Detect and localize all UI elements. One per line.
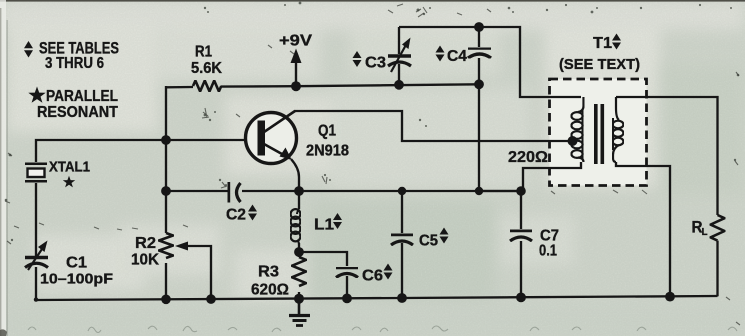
svg-text:Q1: Q1 (318, 123, 336, 140)
transistor Q1 (246, 111, 297, 164)
svg-text:C2: C2 (226, 207, 246, 224)
note symbol (double arrow) top-left (24, 41, 33, 58)
wire: mid wire C2 run (166, 190, 228, 192)
svg-text:2N918: 2N918 (306, 143, 349, 160)
wire: C4 branch vertical (478, 27, 480, 47)
wire: C7 branch (520, 191, 522, 229)
svg-text:620Ω: 620Ω (251, 282, 289, 299)
svg-text:C5: C5 (419, 233, 438, 250)
transformer T1 primary winding (571, 97, 583, 162)
scan border left edge (0, 0, 6, 336)
wire: C3 branch (398, 27, 400, 54)
wire: bottom ground rail (36, 296, 718, 300)
wire: emitter down (291, 159, 299, 191)
resistor R1 (193, 81, 221, 92)
star symbol xtal (63, 176, 75, 188)
transformer T1 core (594, 104, 604, 164)
svg-text:L1: L1 (314, 217, 334, 234)
svg-text:C3: C3 (365, 55, 386, 72)
star symbol parallel note (28, 87, 45, 103)
C4 double arrow (436, 46, 445, 62)
pencil squiggles bottom (28, 326, 737, 333)
wire: C5 branch (401, 191, 403, 233)
svg-text:220Ω: 220Ω (508, 149, 548, 166)
wire: T1 secondary bottom lead (616, 162, 670, 297)
svg-text:C6: C6 (362, 268, 383, 285)
capacitor C6 (336, 268, 358, 278)
C2 double arrow (248, 205, 257, 221)
inductor L1 (291, 209, 301, 244)
svg-text:10K: 10K (131, 252, 159, 269)
C5 double arrow (440, 228, 449, 244)
svg-text:C4: C4 (447, 48, 467, 65)
bottom-left corner scan blob (0, 329, 7, 336)
svg-text:RESONANT: RESONANT (37, 104, 118, 121)
C6 double arrow (384, 264, 393, 280)
wire: left branch xtal/C1 (35, 267, 37, 300)
capacitor C3 (variable) (388, 38, 411, 73)
wire: top tank rail (399, 27, 581, 97)
resistor RL (711, 215, 725, 241)
wire: R2 wiper to rail (186, 246, 211, 299)
capacitor C1 (variable) (25, 241, 48, 271)
svg-text:R1: R1 (195, 44, 212, 61)
wire: RL bottom to rail (716, 241, 718, 297)
svg-text:R2: R2 (135, 235, 156, 252)
wire: L1 leads (298, 191, 300, 209)
resistor R3 (292, 257, 306, 286)
scan specks top (5, 2, 740, 242)
crystal XTAL1 (25, 164, 47, 182)
transformer T1 dashed box (550, 79, 647, 186)
capacitor C5 (391, 235, 413, 246)
svg-text:+9V: +9V (279, 33, 312, 50)
capacitor C4 (468, 48, 491, 58)
+9V supply arrow (291, 49, 302, 87)
resistor R2 (pot) (159, 233, 173, 258)
wire: T1 primary bottom lead (523, 162, 581, 191)
svg-text:(SEE TEXT): (SEE TEXT) (559, 56, 640, 73)
svg-text:R3: R3 (258, 264, 279, 281)
wire: base wire (166, 139, 258, 141)
T1 double arrow (612, 34, 621, 50)
svg-text:XTAL1: XTAL1 (49, 159, 90, 176)
svg-text:PARALLEL: PARALLEL (46, 88, 118, 105)
wire: left vertical x=166 (165, 86, 167, 233)
L1 double arrow (333, 213, 342, 229)
wire: +9V rail (166, 86, 193, 89)
transformer T1 tap junction (568, 136, 578, 146)
ground (289, 299, 310, 326)
C3 double arrow (353, 51, 362, 67)
wire: secondary top to RL (616, 97, 718, 215)
wire: collector to tap (294, 111, 571, 141)
scan border top edge (0, 0, 745, 2)
svg-text:10–100pF: 10–100pF (40, 271, 113, 288)
wire: C6 branch (299, 252, 347, 266)
svg-text:5.6K: 5.6K (191, 60, 222, 77)
svg-text:L: L (702, 227, 708, 238)
svg-text:T1: T1 (593, 35, 612, 52)
transformer T1 secondary winding (613, 97, 624, 162)
svg-text:C1: C1 (66, 255, 87, 272)
wire: R3 leads (298, 252, 300, 257)
svg-text:3 THRU 6: 3 THRU 6 (45, 55, 104, 72)
capacitor C7 (510, 231, 532, 242)
R2 wiper arrow (175, 242, 188, 251)
svg-text:0.1: 0.1 (539, 243, 557, 260)
capacitor C2 (229, 182, 241, 203)
